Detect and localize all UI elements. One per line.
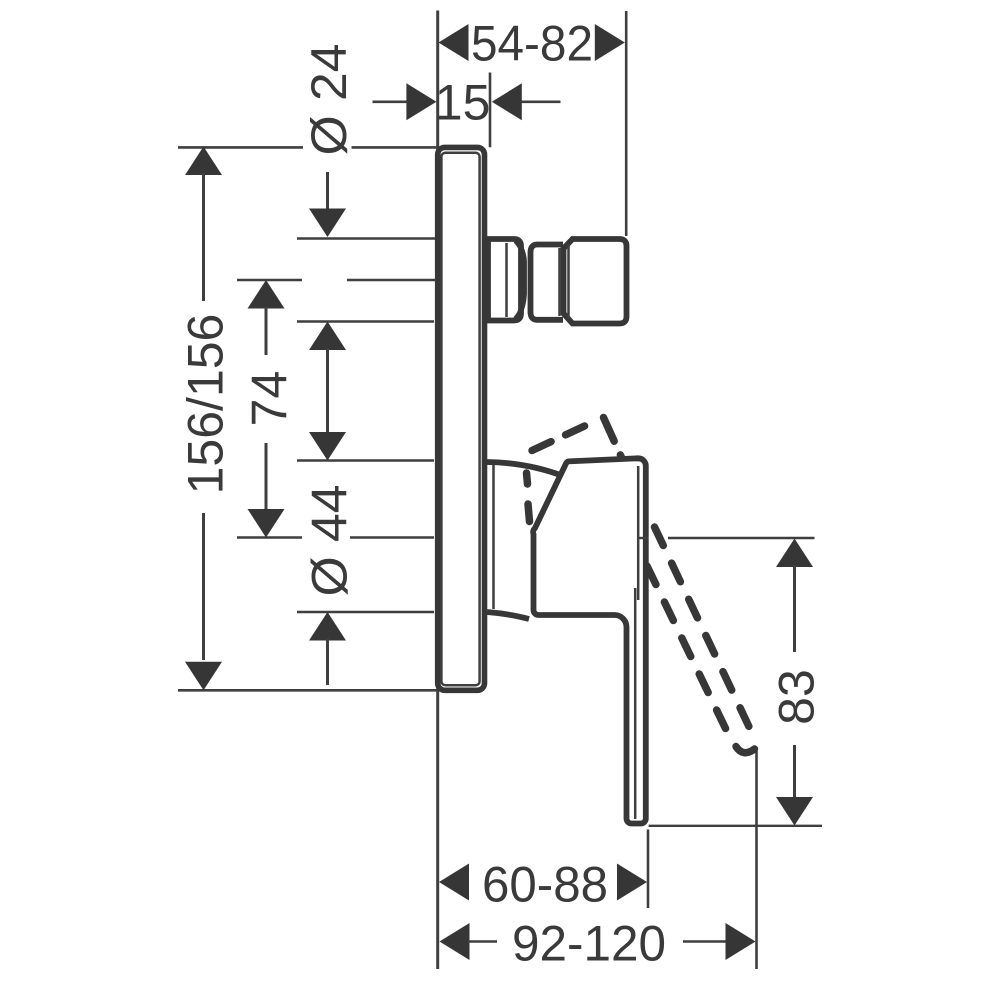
dimension 15 [373, 75, 561, 131]
extension line left vertical (wall line) [436, 11, 439, 970]
dimension 74 [242, 280, 298, 538]
svg-text:Ø 44: Ø 44 [302, 485, 358, 597]
dashed handle top outline [527, 417, 623, 522]
valve dome left face [492, 463, 495, 609]
svg-text:15: 15 [435, 75, 491, 131]
extension tick 83 at handle edge [637, 537, 649, 539]
extension line 60-88 right [647, 830, 650, 909]
extension line 15 front face [489, 73, 492, 148]
svg-text:Ø 24: Ø 24 [301, 44, 357, 156]
svg-text:54-82: 54-82 [471, 16, 593, 72]
dimension diameter 44 [302, 432, 358, 685]
extension line 92-120 right [755, 751, 758, 969]
valve dome bottom arc [487, 612, 529, 619]
handle body and lever [533, 458, 646, 823]
svg-text:74: 74 [242, 371, 298, 427]
dashed lever alternate position right edge [655, 527, 753, 733]
svg-text:156/156: 156/156 [178, 314, 234, 495]
extension line 83 bottom y826 [649, 825, 822, 827]
extension line dome top y460 [297, 459, 434, 462]
dimension 156/156 [178, 147, 234, 691]
spout stub with taper [488, 239, 524, 321]
handle inner highlight lines [635, 466, 638, 819]
dimension 60-88 [439, 857, 647, 913]
valve dome top arc [487, 462, 563, 476]
dimension 54-82 [439, 16, 625, 72]
spout end piece [564, 239, 627, 324]
extension line spout bottom y321 [297, 320, 434, 323]
dimension 92-120 [440, 916, 756, 972]
svg-text:92-120: 92-120 [512, 916, 666, 972]
dashed lever alternate position left edge [647, 566, 734, 746]
svg-text:83: 83 [769, 669, 825, 725]
dimension diameter 24 [301, 44, 357, 434]
svg-text:60-88: 60-88 [482, 857, 608, 913]
extension line dome bottom y612 [297, 611, 434, 614]
escutcheon plate [438, 147, 485, 690]
extension line spout axis y280 [237, 279, 436, 282]
extension line 83 top y538 [668, 537, 815, 539]
extension line 54-82 right [625, 11, 628, 236]
extension line bottom of plate y690 [178, 689, 437, 692]
extension line top of plate y146 [178, 146, 437, 149]
spout middle section [531, 245, 564, 320]
extension line handle axis y537 [237, 536, 434, 539]
extension line spout top y238 [297, 237, 436, 240]
dimension 83 [769, 539, 825, 826]
dashed lever tip [736, 747, 755, 753]
